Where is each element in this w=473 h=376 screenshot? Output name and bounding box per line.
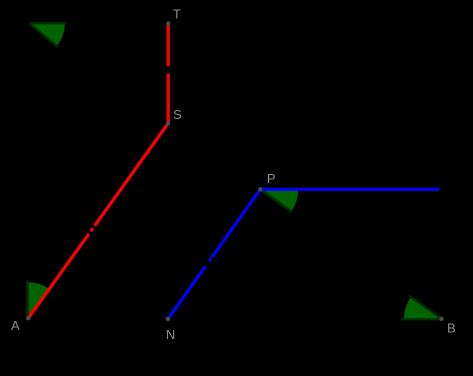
ray horizontal at B	[401, 318, 442, 320]
black label glyph on segment TS	[163, 66, 169, 73]
point N	[166, 317, 170, 321]
point B	[439, 317, 443, 321]
segment P right (blue horizontal)	[260, 188, 439, 191]
angle sector at B	[404, 297, 442, 319]
black label glyph on segment NP	[202, 260, 210, 267]
ray horizontal at W1 vertex	[30, 22, 67, 24]
segment T S (red)	[167, 24, 170, 124]
svg-text:N: N	[166, 327, 175, 342]
point A	[26, 316, 30, 320]
point P	[258, 187, 262, 191]
hidden segment near B (edge of sector)	[409, 296, 442, 319]
svg-text:B: B	[447, 320, 456, 335]
point S	[166, 121, 170, 125]
black label glyph on segment SA	[88, 226, 95, 233]
angle sector at P	[260, 189, 298, 211]
ray vertical at A	[26, 281, 29, 319]
angle sector at A	[28, 282, 49, 318]
svg-text:A: A	[11, 318, 20, 333]
segment N P (blue)	[168, 189, 260, 319]
ray diagonal at W1 vertex	[30, 24, 58, 47]
svg-text:S: S	[173, 107, 182, 122]
angle sector W1 (top-left copied angle)	[30, 24, 65, 47]
svg-text:P: P	[267, 171, 276, 186]
svg-text:T: T	[173, 7, 181, 22]
segment S A (red)	[28, 123, 168, 318]
hidden segment P to B	[260, 189, 292, 212]
point T	[166, 21, 170, 25]
